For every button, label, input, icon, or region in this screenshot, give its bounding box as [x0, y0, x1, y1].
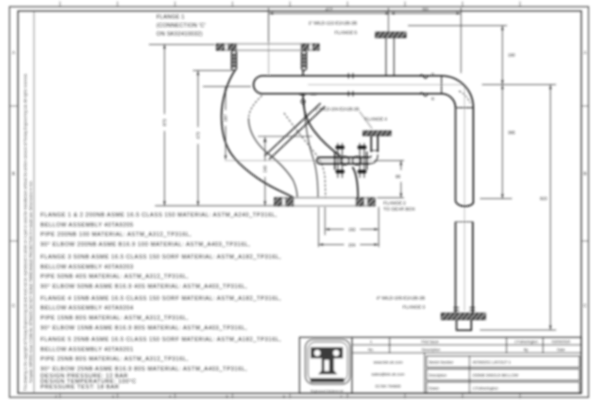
info box sketch number	[427, 356, 580, 367]
svg-text:90° ELBOW 25NB ASME B16.9 80S: 90° ELBOW 25NB ASME B16.9 80S MATERIAL: …	[41, 367, 248, 373]
svg-text:BELLOW ASSEMBLY 40TA9201: BELLOW ASSEMBLY 40TA9201	[41, 347, 134, 353]
pipe break lower line	[456, 221, 473, 223]
ext line pipe centre right	[482, 84, 556, 86]
svg-text:www.tek-uk.com: www.tek-uk.com	[373, 360, 403, 365]
elbow (4in) inner arc	[442, 94, 456, 108]
svg-text:287: 287	[223, 114, 228, 122]
ext line flange2 face right	[377, 197, 404, 199]
pipe centerline horizontal	[308, 84, 465, 86]
flange 3 (bottom right, 4in)	[441, 313, 485, 319]
ext line 88 top	[374, 160, 404, 162]
svg-text:4: 4	[169, 395, 171, 399]
svg-text:03/09/2020: 03/09/2020	[552, 340, 570, 344]
contact texts	[372, 360, 406, 389]
svg-text:No.: No.	[368, 348, 374, 352]
info texts	[429, 360, 455, 390]
pipe centerline vertical	[464, 85, 466, 311]
weld squiggles near elbow	[420, 75, 428, 79]
svg-text:B: B	[432, 72, 435, 77]
svg-text:160: 160	[508, 53, 516, 58]
svg-text:FLANGE 4 15NB ASME 16.5 CLASS: FLANGE 4 15NB ASME 16.5 CLASS 150 SORF M…	[41, 296, 282, 302]
flange1 centerline	[268, 12, 270, 74]
dim 417	[269, 12, 390, 14]
svg-text:FLANGE 3: FLANGE 3	[403, 305, 426, 310]
weld ticks above flange 3	[454, 308, 476, 311]
svg-text:BELLOW ASSEMBLY 40TA9205: BELLOW ASSEMBLY 40TA9205	[41, 222, 134, 228]
svg-text:J.Fotherington: J.Fotherington	[514, 340, 538, 344]
elbow weld face bottom	[456, 107, 474, 109]
dim 365	[501, 85, 503, 198]
svg-text:sales@tek-uk.com: sales@tek-uk.com	[372, 372, 406, 377]
svg-text:Description: Description	[429, 373, 447, 377]
bellow assembly (200NB) convolutions left	[231, 51, 236, 71]
big pipe inner S curve hidden upper	[249, 96, 262, 119]
flange 2 (bottom, 200NB)	[275, 198, 375, 206]
weld symbol circle	[301, 100, 305, 104]
svg-text:TO GEAR BOX: TO GEAR BOX	[384, 206, 416, 211]
ext line flange1 face	[149, 44, 215, 46]
svg-text:BELLOW ASSEMBLY 40TA9203: BELLOW ASSEMBLY 40TA9203	[41, 264, 134, 270]
big pipe right boundary (lower)	[353, 167, 359, 198]
dim 873	[164, 45, 166, 115]
svg-text:90° ELBOW 50NB ASME B16.9 40S: 90° ELBOW 50NB ASME B16.9 40S MATERIAL: …	[41, 284, 248, 290]
leader flange 4	[360, 112, 373, 129]
ext line bellow bottom	[193, 70, 232, 72]
svg-text:1: 1	[370, 340, 372, 344]
right zone ticks	[581, 106, 588, 241]
info box drawn	[427, 382, 580, 393]
svg-text:B: B	[583, 171, 586, 176]
svg-text:PIPE 15NB 80S MATERIAL: ASTM_: PIPE 15NB 80S MATERIAL: ASTM_A312_TP316L…	[41, 315, 189, 321]
svg-text:5: 5	[226, 395, 228, 399]
weld ticks on top pipe	[349, 73, 354, 97]
svg-text:Date: Date	[557, 348, 565, 352]
svg-text:01784 794800: 01784 794800	[375, 384, 401, 389]
svg-text:J.Fotherington: J.Fotherington	[473, 386, 499, 391]
elbow hidden dashed arc	[459, 91, 470, 103]
ext line pipe centre left	[203, 86, 251, 88]
ext line flange5 top right	[408, 25, 507, 27]
svg-text:BELLOW ASSEMBLY 40TA9204: BELLOW ASSEMBLY 40TA9204	[41, 306, 134, 312]
stud nuts	[336, 146, 367, 173]
mitre seam / 240 extension line	[258, 135, 312, 137]
dim 240	[264, 137, 266, 161]
elbow weld face left	[441, 76, 443, 94]
rev table texts	[368, 340, 570, 352]
big pipe right boundary (upper)	[303, 94, 341, 157]
left zone letters	[12, 50, 16, 308]
disclaimer column divider	[33, 11, 35, 393]
svg-text:1" MILD-122-E2A2B-2B: 1" MILD-122-E2A2B-2B	[308, 21, 357, 26]
dim 204	[319, 244, 344, 246]
right zone letters	[583, 50, 587, 308]
elbow (4in) outer arc	[442, 76, 474, 108]
branch riser walls	[370, 136, 372, 152]
vertical pipe (4in) upper segment	[455, 108, 457, 202]
svg-text:88: 88	[396, 174, 401, 179]
svg-text:2: 2	[55, 395, 57, 399]
pipe stub below flange 3	[457, 320, 472, 331]
flange 4 (1in, hatched)	[363, 131, 391, 136]
vertical pipe (4in) lower segment	[455, 222, 457, 313]
svg-text:1" MILD-104-E2A2B-2B: 1" MILD-104-E2A2B-2B	[315, 107, 360, 112]
svg-text:200NB SINGLE BELLOW: 200NB SINGLE BELLOW	[473, 373, 519, 378]
stub walls	[385, 38, 387, 76]
dim 823	[549, 85, 551, 330]
dim 88	[400, 161, 402, 170]
hidden dashed curve (right inner wall)	[284, 113, 326, 198]
svg-text:Sketch Number: Sketch Number	[429, 360, 455, 364]
svg-text:240: 240	[263, 165, 268, 173]
svg-text:This drawing is the copyright: This drawing is the copyright of Teekay …	[24, 73, 28, 391]
svg-text:FLANGE 1: FLANGE 1	[157, 15, 185, 21]
logo cell divider	[351, 337, 353, 393]
bellow assembly (200NB) convolutions right	[301, 51, 306, 71]
svg-text:FLANGE 3 50NB ASME 16.5 CLASS: FLANGE 3 50NB ASME 16.5 CLASS 150 SORF M…	[41, 255, 282, 261]
title block outline	[300, 337, 582, 393]
top pipe (4in) bottom edge	[263, 93, 442, 95]
svg-text:4" MILD-105-E2A2B-2B: 4" MILD-105-E2A2B-2B	[376, 296, 425, 301]
small bellow convolution circles	[341, 156, 350, 165]
info box description	[427, 369, 580, 380]
riser weld seam	[371, 150, 378, 152]
small bellow flange plates	[334, 152, 336, 170]
bottom zone ticks	[60, 393, 520, 398]
svg-text:873: 873	[162, 118, 167, 126]
svg-text:FLANGE 4: FLANGE 4	[365, 117, 388, 122]
svg-text:PRESSURE TEST: 18 BAR: PRESSURE TEST: 18 BAR	[41, 384, 120, 390]
svg-text:PIPE 200NB 100 MATERIAL: ASTM: PIPE 200NB 100 MATERIAL: ASTM_A312_TP316…	[41, 232, 192, 238]
weld marks at branch junction	[300, 93, 317, 95]
ext line above elbow	[460, 8, 462, 73]
svg-text:Template 40F0001 Issue 3 CAD: Template 40F0001 Issue 3 CAD file 40TA92…	[29, 181, 33, 383]
svg-text:FLANGE 1 & 2 200NB ASME 16.5 C: FLANGE 1 & 2 200NB ASME 16.5 CLASS 150 M…	[41, 213, 278, 219]
big pipe right wall upper stub	[302, 70, 304, 76]
rev table lines	[352, 344, 581, 346]
flange 5 hatched	[376, 32, 407, 37]
svg-text:(CONNECTION 'C': (CONNECTION 'C'	[157, 23, 206, 29]
svg-text:By: By	[524, 348, 528, 352]
info label divider	[469, 356, 471, 393]
svg-text:FLANGE 5 25NB ASME 16.5 CLASS: FLANGE 5 25NB ASME 16.5 CLASS 150 SORF M…	[41, 337, 282, 343]
svg-text:182: 182	[349, 227, 357, 232]
svg-text:B: B	[432, 96, 435, 101]
svg-text:First Issue: First Issue	[421, 340, 438, 344]
label flange 1	[157, 15, 206, 38]
svg-text:B: B	[12, 171, 15, 176]
svg-text:7: 7	[340, 395, 342, 399]
svg-text:417: 417	[326, 7, 334, 12]
diagonal brace	[269, 106, 325, 159]
branch elbow up (1in)	[369, 155, 378, 164]
dim 287	[225, 87, 227, 110]
svg-text:473: 473	[196, 131, 201, 139]
flange 1 (top, 200NB)	[217, 44, 320, 50]
bottom zone numbers	[55, 395, 342, 399]
svg-text:823: 823	[540, 196, 548, 201]
svg-text:Drawn: Drawn	[429, 386, 439, 390]
svg-text:3: 3	[112, 395, 114, 399]
tie rod studs	[338, 143, 364, 178]
contact cell divider	[424, 353, 426, 394]
branch centerline	[225, 160, 372, 162]
big pipe segment seam curve	[304, 101, 318, 198]
svg-text:90° ELBOW 15NB ASME B16.9 80S: 90° ELBOW 15NB ASME B16.9 80S MATERIAL: …	[41, 325, 248, 331]
svg-text:204: 204	[349, 242, 357, 247]
left zone ticks	[10, 106, 19, 241]
top zone ticks	[60, 2, 520, 7]
ext line branch level right	[480, 198, 512, 200]
dim 473	[197, 71, 199, 127]
svg-text:PIPE 50NB 40S MATERIAL: ASTM_: PIPE 50NB 40S MATERIAL: ASTM_A312_TP316L…	[41, 274, 189, 280]
pipe break curve	[456, 202, 474, 207]
dim 160	[501, 26, 503, 84]
svg-text:40TA9201 LAYOUT 1: 40TA9201 LAYOUT 1	[473, 360, 512, 365]
svg-text:ON SK02410032): ON SK02410032)	[157, 32, 203, 38]
big pipe inner S curve	[249, 118, 298, 198]
big pipe left boundary (S-curve)	[222, 70, 294, 198]
svg-text:Description: Description	[422, 348, 440, 352]
dim 261	[390, 12, 460, 14]
top pipe hidden end cap	[254, 76, 263, 94]
svg-text:Engineered Solutions Ltd: Engineered Solutions Ltd	[311, 389, 344, 393]
ext line above flange5	[387, 8, 389, 32]
svg-text:365: 365	[508, 130, 516, 135]
svg-text:261: 261	[422, 7, 430, 12]
ext line above flange1	[268, 8, 270, 42]
top pipe (4in) top edge	[263, 75, 442, 77]
svg-text:6: 6	[283, 395, 285, 399]
branch pipe (1in) capsule	[317, 157, 370, 163]
svg-text:FLANGE 2: FLANGE 2	[384, 200, 407, 205]
svg-text:90° ELBOW 200NB ASME B16.9 100: 90° ELBOW 200NB ASME B16.9 100 MATERIAL:…	[41, 242, 251, 248]
ext line flange2 underside	[155, 205, 275, 207]
logo Teekay	[306, 340, 351, 393]
svg-text:PIPE 25NB 80S MATERIAL: ASTM_: PIPE 25NB 80S MATERIAL: ASTM_A312_TP316L…	[41, 357, 189, 363]
dim 182	[325, 228, 344, 230]
ext line flange3 face right	[480, 329, 556, 331]
svg-text:FLANGE 5: FLANGE 5	[335, 30, 358, 35]
ext lines below flange2	[318, 207, 320, 247]
